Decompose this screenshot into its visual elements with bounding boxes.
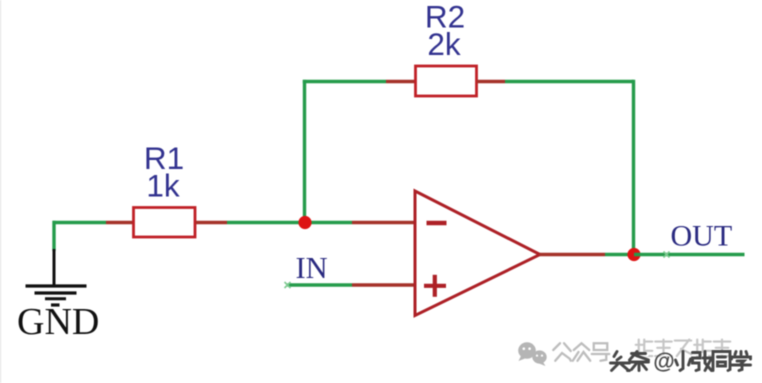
- wire: GND riser horizontal segment: [53, 221, 107, 224]
- wire: output pin to node: [605, 253, 634, 256]
- node: output junction: [627, 248, 640, 261]
- ground: [26, 249, 87, 305]
- wire: OUT net wire: [634, 252, 745, 258]
- resistor R2: [386, 66, 505, 96]
- svg-text:OUT: OUT: [671, 220, 733, 253]
- wire: node to op-amp inverting pin (green part): [305, 221, 352, 224]
- wire: IN net wire: [285, 282, 353, 288]
- watermark: [518, 340, 752, 376]
- resistor R1: [106, 208, 227, 238]
- op-amp U1: [415, 191, 540, 316]
- svg-text:IN: IN: [296, 251, 328, 285]
- wire: GND vertical drop (green part): [52, 221, 55, 251]
- wire: top feedback left segment: [303, 80, 386, 83]
- wire: feedback vertical riser at node: [303, 80, 306, 223]
- node: inverting input junction: [298, 216, 311, 229]
- svg-text:GND: GND: [17, 301, 99, 343]
- svg-text:@: @: [653, 349, 674, 374]
- svg-text:2k: 2k: [427, 26, 461, 62]
- op-amp U1 output pin: [540, 253, 606, 256]
- wire: feedback vertical drop to output node: [632, 80, 635, 255]
- wire: R1 to inverting-input node: [227, 221, 305, 224]
- op-amp U1 inverting pin: [352, 221, 416, 224]
- page left edge: [0, 0, 2, 383]
- wire: top feedback right segment: [505, 80, 634, 83]
- svg-text:1k: 1k: [146, 168, 180, 204]
- op-amp U1 non-inverting pin: [352, 283, 416, 286]
